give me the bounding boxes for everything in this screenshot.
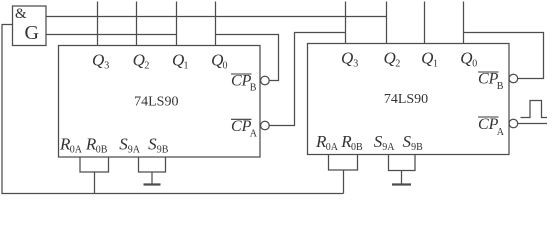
svg-text:74LS90: 74LS90: [384, 92, 428, 107]
svg-text:Q: Q: [460, 49, 472, 68]
IC U1 74LS90 box (left): [59, 46, 261, 158]
wire S9 strap U1 to ground: [151, 172, 153, 184]
bubble CPB U2: [509, 74, 518, 83]
svg-text:A: A: [250, 128, 258, 139]
svg-text:&: &: [15, 6, 27, 22]
bubble CPA U2: [509, 119, 518, 128]
svg-text:0A: 0A: [326, 142, 339, 153]
svg-text:0A: 0A: [70, 145, 83, 156]
svg-text:3: 3: [104, 61, 109, 72]
wire S9 strap U2 to ground: [401, 171, 403, 185]
wire gate input B to Q1 of U1: [46, 34, 177, 36]
wire Q1 vertical U2: [424, 2, 426, 44]
ground U1: [144, 183, 161, 185]
svg-text:0: 0: [472, 59, 477, 70]
svg-text:0: 0: [223, 61, 228, 72]
label CPA U2: [478, 116, 499, 118]
svg-text:0B: 0B: [351, 142, 363, 153]
svg-text:0B: 0B: [96, 145, 108, 156]
wire S9A-S9B strap U2: [389, 154, 416, 171]
svg-text:A: A: [497, 127, 505, 138]
wire clock input to CPA U2: [518, 123, 547, 125]
svg-text:CP: CP: [231, 72, 252, 89]
label CPB U2: [478, 71, 499, 73]
wire S9A-S9B strap U1: [139, 157, 166, 172]
wire Q3 U2 to CPA U1: [269, 33, 345, 126]
svg-text:Q: Q: [384, 49, 396, 68]
svg-text:2: 2: [395, 59, 400, 70]
svg-text:3: 3: [353, 59, 358, 70]
clock pulse symbol: [521, 101, 548, 118]
ground U2: [392, 183, 411, 185]
svg-text:Q: Q: [421, 49, 433, 68]
wire Q2 vertical U2: [386, 2, 388, 44]
svg-text:9B: 9B: [157, 145, 169, 156]
label CPB U1: [231, 73, 252, 75]
label CPA U1: [231, 118, 252, 120]
wire Q0 vertical U2: [463, 2, 465, 44]
svg-text:Q: Q: [133, 51, 145, 70]
wire Q1 vertical U1: [176, 2, 178, 46]
svg-text:Q: Q: [341, 49, 353, 68]
svg-text:9A: 9A: [128, 145, 141, 156]
wire Q2 vertical U1: [136, 2, 138, 46]
wire Q3 vertical U1: [97, 2, 99, 46]
svg-text:CP: CP: [478, 116, 499, 133]
svg-text:CP: CP: [478, 70, 499, 87]
svg-text:9B: 9B: [411, 142, 423, 153]
wire gate input A to Q2 of U2: [46, 16, 387, 18]
wire Q0 vertical U1: [215, 2, 217, 46]
svg-text:74LS90: 74LS90: [134, 94, 178, 109]
wire R0A-R0B strap U2: [329, 154, 358, 170]
svg-text:B: B: [497, 81, 504, 92]
wire Q0 U1 to CPB U1: [216, 35, 279, 81]
svg-text:1: 1: [433, 59, 438, 70]
bubble CPA U1: [261, 121, 270, 130]
wire Q0 U2 to CPB U2: [464, 33, 544, 79]
svg-text:G: G: [25, 22, 39, 44]
svg-text:2: 2: [144, 61, 149, 72]
IC U2 74LS90 box (right): [308, 44, 510, 155]
svg-text:CP: CP: [231, 118, 252, 135]
wire R0 strap U1 to bottom bus: [94, 172, 96, 194]
and-gate G box: [13, 6, 47, 46]
svg-text:1: 1: [184, 61, 189, 72]
wire R0 strap U2 to bottom bus: [343, 170, 345, 194]
bubble CPB U1: [261, 76, 270, 85]
svg-text:9A: 9A: [382, 142, 395, 153]
svg-text:Q: Q: [172, 51, 184, 70]
svg-text:B: B: [250, 83, 257, 94]
svg-text:Q: Q: [92, 51, 104, 70]
wire Q3 vertical U2: [345, 2, 347, 44]
wire R0A-R0B strap U1: [80, 157, 109, 172]
wire gate output left-down-bottom bus to R0 pins: [2, 25, 344, 194]
